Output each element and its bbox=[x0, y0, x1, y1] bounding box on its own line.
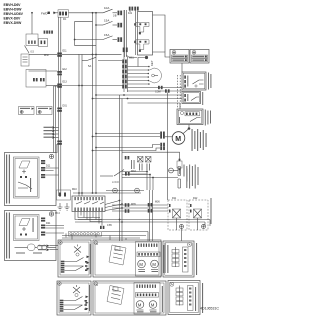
relay 2 bbox=[134, 40, 149, 52]
vertical bus second pair bbox=[53, 86, 55, 153]
svg-text:EBVH-UD6V: EBVH-UD6V bbox=[4, 12, 24, 16]
svg-text:M: M bbox=[151, 302, 155, 307]
rear sub switch inner module bbox=[14, 215, 40, 241]
svg-text:E11: E11 bbox=[63, 50, 68, 53]
fuse F2 15A bbox=[103, 18, 117, 25]
motor row pin connectors bbox=[160, 132, 165, 136]
branch arrow row 4 bbox=[44, 136, 59, 139]
svg-text:M36: M36 bbox=[155, 201, 160, 204]
connector E01 bbox=[58, 10, 69, 17]
svg-text:M61: M61 bbox=[129, 57, 134, 60]
wire door switch row bbox=[29, 70, 58, 72]
coil cluster pins bbox=[125, 156, 130, 159]
wire cross branch bbox=[61, 85, 124, 87]
bus fan to main switch bbox=[105, 200, 123, 211]
svg-text:FWD: FWD bbox=[41, 11, 47, 15]
motor connector pins bbox=[160, 135, 165, 139]
front passenger switch box bbox=[5, 153, 57, 206]
svg-text:COM: COM bbox=[155, 91, 161, 94]
safety relay row2 label bbox=[202, 283, 203, 313]
mid horizontal feeds bbox=[96, 94, 182, 96]
relay 2 terminal bbox=[202, 225, 206, 229]
motor sub-unit box LH bbox=[136, 242, 162, 277]
main switch internal contacts bbox=[76, 202, 104, 205]
bus A vertical pair bbox=[124, 10, 126, 57]
bus A bottom curve bbox=[127, 55, 138, 58]
key interlock box 2 bbox=[39, 39, 48, 47]
top pin ticks bus B bbox=[129, 7, 133, 11]
joint label bars bbox=[184, 165, 199, 189]
arrow feeds lower left bbox=[38, 245, 58, 248]
svg-text:D21: D21 bbox=[46, 222, 51, 225]
wire rows to motor connectors bbox=[96, 133, 160, 135]
long return wires bbox=[75, 220, 210, 223]
vertical wire into relay box bbox=[129, 11, 131, 12]
ignition key ladder bus bbox=[123, 10, 125, 92]
wire branch to second pair bbox=[54, 85, 59, 87]
door lock actuator box bbox=[177, 109, 203, 125]
pulse unit label bbox=[202, 92, 203, 105]
safety unit box 2 bbox=[190, 50, 209, 64]
left pigtail box bbox=[57, 190, 71, 200]
fuse F3 15A bbox=[103, 33, 117, 40]
buzzer box bbox=[21, 54, 29, 66]
svg-text:EBVH-D6V: EBVH-D6V bbox=[4, 3, 22, 7]
connector code labels bbox=[31, 12, 199, 227]
svg-text:KEY: KEY bbox=[150, 60, 154, 66]
fuse F1 output pins bbox=[118, 11, 123, 16]
relay 1 drop wire bbox=[181, 229, 183, 242]
motor comb LH bbox=[138, 244, 157, 247]
main switch lower comb bbox=[75, 208, 103, 212]
rear door switch RH box bbox=[57, 281, 91, 315]
key switch blade bbox=[25, 46, 30, 54]
ground note box 1 bbox=[19, 107, 35, 115]
svg-text:M: M bbox=[139, 262, 143, 267]
auto-down unit symbols bbox=[15, 244, 57, 254]
lower distribution wires bbox=[102, 232, 148, 242]
rear passenger switch box bbox=[5, 211, 57, 261]
wire feed to connector bbox=[53, 12, 58, 14]
rear circled terminal bbox=[49, 212, 53, 216]
wire rows lower bbox=[96, 145, 160, 148]
svg-text:R12: R12 bbox=[193, 197, 198, 200]
window glass pictogram LH bbox=[109, 245, 126, 265]
relay 1 terminal bbox=[180, 225, 184, 229]
main switch top pin comb bbox=[75, 197, 103, 200]
junction dots top bbox=[92, 12, 94, 14]
schematic applicability code list bbox=[4, 3, 24, 25]
wire to right bus bbox=[153, 15, 166, 52]
vertical bus left pair bbox=[58, 17, 60, 196]
branch arrow row 1 bbox=[44, 126, 59, 129]
motor box label LH bbox=[163, 245, 164, 273]
battery feed label FWD bbox=[41, 11, 56, 15]
svg-text:EBVX-D6V: EBVX-D6V bbox=[4, 17, 21, 21]
safety relay row1 label bbox=[196, 243, 197, 275]
motor comb RH bbox=[137, 285, 156, 288]
wire timer to limit unit bbox=[181, 63, 183, 72]
power window relay 1 bbox=[168, 200, 187, 230]
illumination junction 2 bbox=[135, 188, 140, 193]
motor circle RH a bbox=[136, 301, 144, 313]
vertical bus pair D bbox=[119, 95, 121, 241]
actuator label columns bbox=[205, 110, 211, 126]
fusible link connector bbox=[177, 159, 187, 182]
main switch output terminal row bbox=[69, 232, 102, 237]
svg-text:EBVX-D9W: EBVX-D9W bbox=[4, 21, 22, 25]
switch S1 bbox=[82, 57, 122, 68]
svg-text:D01: D01 bbox=[63, 105, 68, 108]
wire main feed bbox=[69, 12, 104, 14]
lock switch S5 bbox=[100, 170, 148, 185]
pin pairs on bus E bbox=[148, 203, 153, 207]
vertical bus pair B bbox=[78, 55, 80, 197]
dashed link wires bbox=[176, 75, 178, 108]
svg-text:E13: E13 bbox=[63, 81, 68, 84]
svg-text:4D1J6531C: 4D1J6531C bbox=[200, 307, 219, 311]
key switch top terminal bbox=[138, 56, 148, 67]
key cylinder switch fan wires bbox=[128, 66, 150, 85]
svg-text:M35: M35 bbox=[131, 203, 136, 206]
pin connectors on left bus bbox=[57, 53, 62, 57]
circled terminal top bbox=[49, 154, 53, 158]
sub switch connector comb bbox=[41, 160, 45, 178]
svg-text:M: M bbox=[152, 262, 156, 267]
svg-text:0.85: 0.85 bbox=[107, 224, 112, 227]
svg-text:D11: D11 bbox=[46, 165, 51, 168]
motor box label RH bbox=[162, 286, 163, 312]
svg-text:M: M bbox=[138, 302, 142, 307]
motor circle LH b bbox=[151, 260, 159, 272]
riser wire bbox=[75, 22, 96, 46]
key cylinder switch body bbox=[150, 68, 162, 83]
motor connector strip LH bbox=[137, 252, 160, 257]
svg-text:5A: 5A bbox=[88, 64, 91, 68]
motor label columns bbox=[192, 129, 207, 151]
svg-text:15A: 15A bbox=[104, 33, 109, 37]
com pin connector mid bbox=[158, 86, 170, 93]
limit switch unit box bbox=[182, 72, 206, 90]
wire to bus lower bbox=[46, 85, 61, 87]
arrows into LH boxes bbox=[87, 256, 90, 271]
main switch feed wire bbox=[73, 192, 141, 194]
svg-text:W/R: W/R bbox=[44, 54, 49, 57]
svg-text:M10: M10 bbox=[72, 188, 77, 191]
pulse unit box bbox=[182, 92, 201, 104]
rear door switch LH box bbox=[58, 240, 91, 277]
svg-text:15A: 15A bbox=[104, 18, 109, 22]
door switch connector box bbox=[26, 70, 46, 88]
svg-text:EBVH-D9W: EBVH-D9W bbox=[4, 7, 23, 11]
safety relay box row1 bbox=[163, 241, 194, 277]
ground point G1 bbox=[55, 203, 63, 215]
window motor M1 bbox=[172, 129, 189, 145]
wire lower branch bbox=[128, 103, 181, 109]
pin connector row 4 on bus A bbox=[123, 48, 128, 53]
svg-text:R11: R11 bbox=[172, 197, 177, 200]
key interlock pins top bbox=[44, 31, 48, 34]
power window relay 2 bbox=[189, 200, 208, 230]
motor circle LH a bbox=[138, 260, 146, 272]
motor circle RH b bbox=[149, 301, 157, 313]
safety unit box 1 bbox=[170, 50, 189, 64]
ground point G2 bbox=[65, 203, 70, 210]
wire to fusible link bbox=[122, 152, 180, 161]
bus label vertical bbox=[56, 144, 57, 153]
motor connector strip RH bbox=[136, 293, 159, 298]
wires from rear sub switch bbox=[46, 226, 65, 234]
wire actuator to motor bbox=[188, 125, 190, 129]
wire fuse row 3 bbox=[75, 39, 103, 41]
svg-text:M10: M10 bbox=[55, 211, 61, 215]
main switch harness nest bbox=[75, 212, 102, 226]
top pin ticks bus C bbox=[134, 7, 138, 11]
rear window motor RH box bbox=[93, 281, 166, 315]
illumination junction 1 bbox=[106, 188, 144, 193]
motor feed wire bbox=[165, 136, 172, 138]
svg-text:E12: E12 bbox=[63, 68, 68, 71]
joint connector circle bbox=[169, 168, 178, 173]
wires from sub switch bbox=[46, 168, 59, 175]
arrows into RH boxes bbox=[86, 296, 89, 311]
joint brackets bbox=[178, 167, 181, 189]
relay feed wires bbox=[112, 205, 168, 211]
ground note box 2 bbox=[37, 107, 53, 115]
rear window motor LH box bbox=[93, 240, 161, 277]
svg-text:J/B: J/B bbox=[113, 15, 117, 18]
wire relay box to timer units bbox=[153, 52, 171, 57]
wire buzzer to bus bbox=[29, 53, 79, 55]
power window main switch box bbox=[72, 196, 105, 212]
wire bus B top branch bbox=[79, 53, 122, 55]
svg-text:M33: M33 bbox=[131, 170, 136, 173]
window glass pictogram RH bbox=[107, 286, 124, 305]
relay label bar bbox=[211, 198, 212, 224]
branch arrow row 2 bbox=[44, 130, 59, 133]
power window relay box bbox=[138, 12, 153, 56]
key interlock feed wire bbox=[31, 13, 33, 34]
key interlock unit box bbox=[26, 34, 38, 46]
relay coil cluster bbox=[131, 157, 151, 171]
interlink wires to joint bbox=[122, 171, 147, 173]
long vertical to relay bbox=[166, 93, 168, 201]
relay 1 bbox=[134, 22, 149, 34]
bus pair E to relays bbox=[149, 190, 151, 241]
limit unit labels bbox=[208, 73, 211, 90]
motor sub-unit box RH bbox=[134, 283, 160, 315]
ladder pin connectors bbox=[122, 60, 127, 64]
motor terminal dot bbox=[188, 127, 191, 130]
wire fuse row 2 bbox=[96, 24, 103, 26]
rear sub switch comb bbox=[41, 218, 45, 236]
svg-text:LOCK: LOCK bbox=[112, 180, 119, 184]
sub switch inner module bbox=[14, 157, 40, 198]
vertical bus pair C bbox=[92, 13, 94, 193]
svg-text:F21: F21 bbox=[128, 12, 133, 15]
branch arrow row 3 bbox=[44, 133, 59, 136]
safety relay box row2 bbox=[168, 281, 200, 315]
svg-text:10A: 10A bbox=[104, 6, 109, 10]
fuse F1 10A bbox=[103, 6, 117, 13]
svg-text:M: M bbox=[175, 136, 181, 143]
